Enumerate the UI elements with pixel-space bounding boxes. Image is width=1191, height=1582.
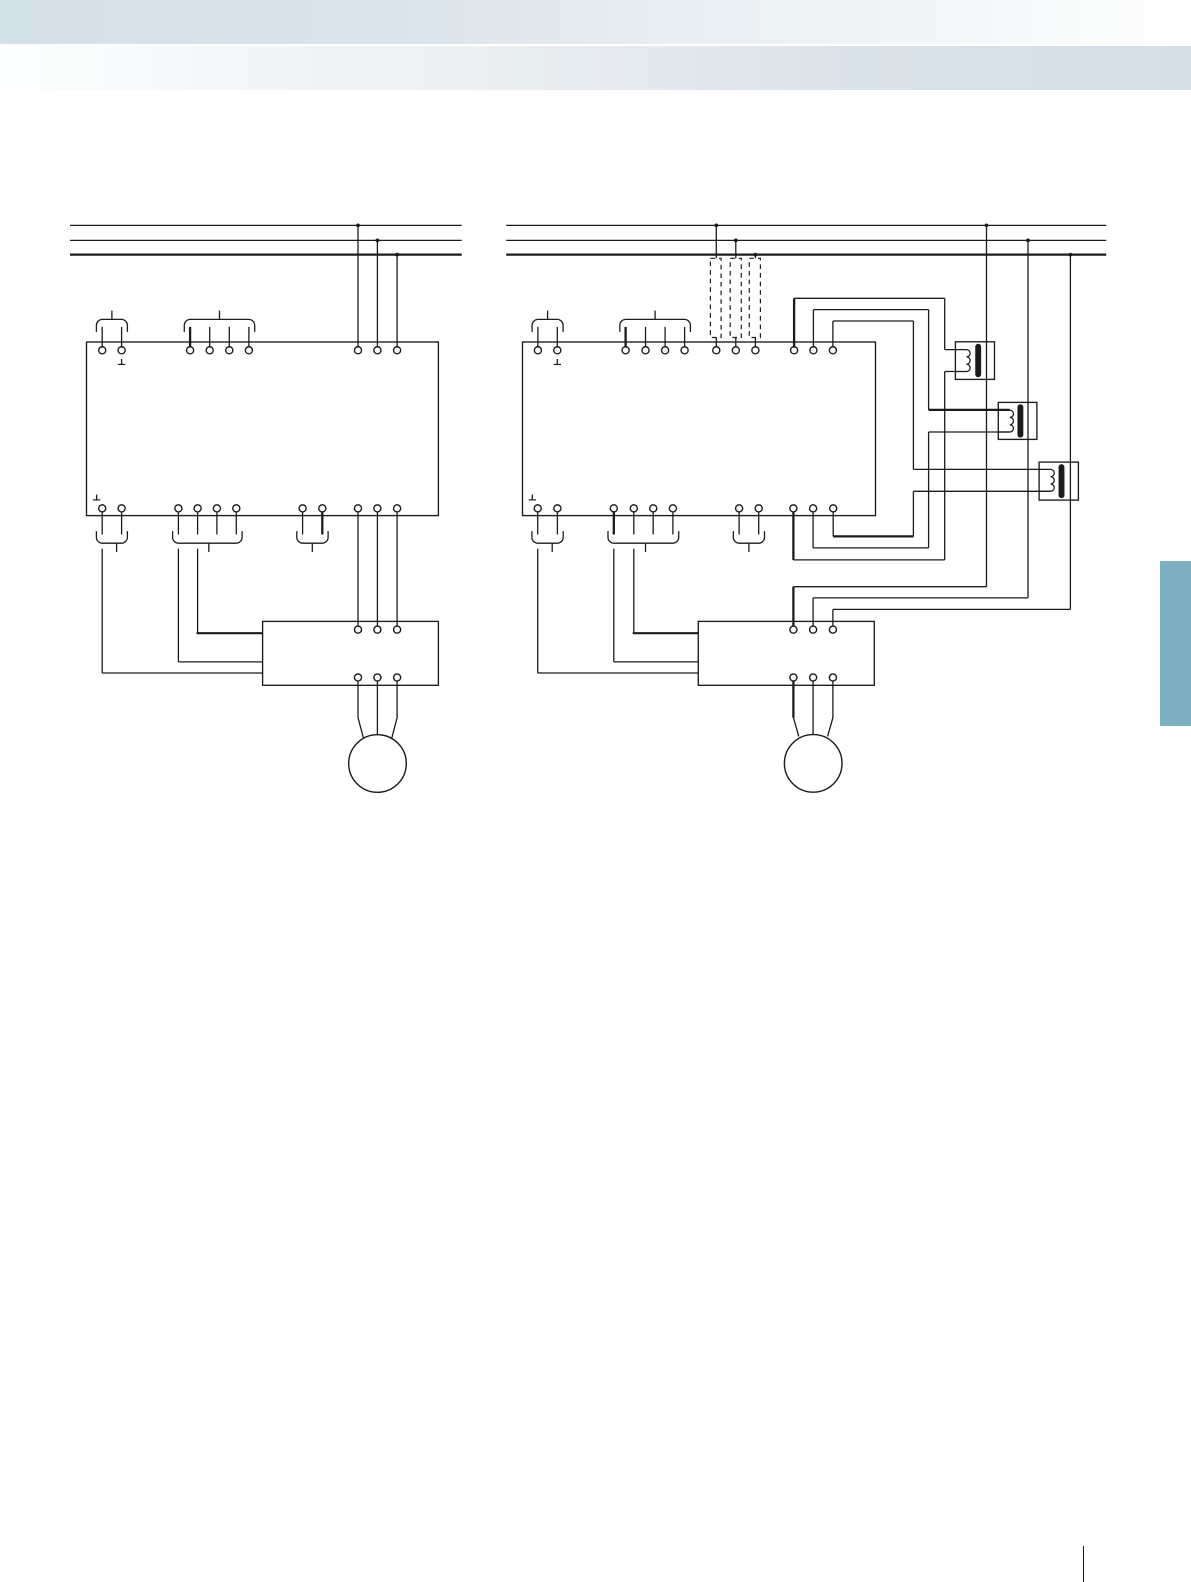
terminal circles X5 pair (right bottom) — [736, 505, 763, 512]
contactor K4 coil (right) — [1039, 469, 1054, 491]
terminal circles X3 pair (left bottom) — [99, 505, 126, 512]
connector X2 bracket with pins, pin1 bold (right, control group) — [620, 311, 691, 347]
three-phase supply line L3 (left diagram) — [70, 253, 462, 255]
wire bypass to motor phase U bold (right) — [793, 681, 798, 737]
wire L2 to fuse F2 (right) — [735, 240, 737, 258]
wire contactor K3 return to terminal 4T2 (right) — [813, 432, 1010, 548]
bypass K5 input terminal circles (right) — [790, 626, 837, 633]
wire supply L2 drop to bypass input (right) — [813, 239, 1030, 627]
wire bypass to motor phase W (left) — [392, 681, 397, 738]
contactor K3 coil (right) — [998, 410, 1013, 432]
wire 2T1 bold stub (right) — [792, 512, 794, 560]
wire tap2 riser to node (right) — [812, 310, 814, 347]
wire supply L1 drop to bypass input (right) — [793, 224, 988, 627]
contactor K2 enclosure (right) — [955, 342, 994, 380]
wire L3 drop to softstarter terminal 5L3 (left) — [396, 255, 398, 347]
terminal circles T1 T2 T3 delta taps (right top) — [791, 347, 837, 354]
wire fuse F1 to terminal 1L1 (right) — [715, 338, 717, 347]
connector X3 cup with pins (right bottom pair) — [532, 512, 563, 552]
softstarter U2 enclosure (right diagram) — [523, 342, 876, 516]
wire X3 pin1 to bypass contactor (left) — [102, 549, 262, 673]
wire 2T1 to bypass terminal (left) — [357, 512, 359, 626]
wire tap1 bold riser to node (right) — [793, 298, 795, 347]
optional fuse F3, dashed (right) — [749, 258, 760, 337]
wire tap3 riser to node (right) — [832, 321, 834, 347]
three-phase supply line L2 (right diagram) — [506, 239, 1106, 241]
ground mark at X1 (left) — [118, 359, 125, 364]
wire bypass to motor phase W (right) — [828, 681, 833, 737]
wire L3 to fuse F3 (right) — [754, 255, 756, 259]
three-phase supply line L3 (right diagram) — [506, 253, 1106, 255]
terminal circles X3 pair (right bottom) — [534, 505, 561, 512]
wire contactor K4 return to terminal 6T3, thick end (right) — [833, 491, 1050, 536]
wire 6T3 stub (right) — [832, 512, 834, 537]
wire supply L3 drop to bypass input (right) — [833, 253, 1072, 626]
junction node L1 (left) — [356, 224, 360, 228]
junction node L1 to fuse F1 (right) — [714, 224, 718, 228]
wire 4T2 stub (right) — [812, 512, 814, 548]
three-phase supply line L1 (left diagram) — [70, 224, 462, 226]
wire bypass to motor phase V (right) — [812, 681, 814, 735]
bypass contactor K5 enclosure (right diagram) — [698, 621, 874, 685]
wire contactor K2 return to terminal 2T1 (right) — [793, 372, 944, 560]
wire bypass to motor phase V (left) — [376, 681, 378, 735]
connector X2 bracket with pins, pin1 bold (left, control group) — [184, 311, 254, 347]
terminal circles 1L1 3L2 5L3 (right) — [713, 347, 759, 354]
softstarter U1 enclosure (left diagram) — [87, 342, 439, 516]
ground mark bottom-left (left) — [93, 495, 100, 500]
contactor K3 enclosure (right) — [998, 402, 1037, 439]
wire fuse F3 to terminal 5L3 (right) — [754, 338, 756, 347]
bypass K5 output terminal circles (right) — [790, 674, 837, 681]
connector X3 cup with pins (left bottom pair) — [96, 512, 127, 552]
terminal circles 2T1 4T2 6T3 (left bottom) — [354, 505, 400, 512]
wire 4T2 to bypass terminal (left) — [376, 512, 378, 626]
junction node L3 to fuse F3 (right) — [754, 253, 758, 257]
wire L1 to fuse F1 (right) — [715, 225, 717, 258]
ground mark at X1 (right) — [554, 359, 561, 364]
connector X4 cup with pins, pin1 bold (right bottom group of 4) — [608, 512, 679, 552]
wire L2 drop to softstarter terminal 3L2 (left) — [376, 240, 378, 347]
connector X1 bracket with pins (left, supply pair) — [96, 311, 127, 347]
wire L1 drop to softstarter terminal 1L1 (left) — [357, 225, 359, 347]
contactor K2 coil (right) — [945, 350, 970, 372]
wire tap2 across to contactor K3 coil, thick feed (right) — [813, 310, 1009, 410]
connector X4 cup with pins (left bottom group of 4) — [173, 512, 243, 552]
motor M2 (right diagram) — [784, 735, 842, 793]
wire bypass to motor phase U (left) — [358, 681, 363, 738]
connector X5 cup with pins (right bottom pair) — [733, 512, 764, 552]
bypass K1 output terminal circles (left) — [354, 674, 400, 681]
wire tap1 across to contactor K2 coil (right) — [794, 298, 945, 349]
three-phase supply line L2 (left diagram) — [70, 239, 462, 241]
bypass contactor K1 enclosure (left diagram) — [263, 621, 439, 685]
terminal circles 1L1 3L2 5L3 (left) — [354, 347, 400, 354]
wire tap3 across to contactor K4 coil (right) — [833, 321, 1051, 469]
contactor K3 contact bar (right) — [1017, 407, 1023, 435]
connector X5 cup with pins, pin2 bold (left bottom pair) — [297, 512, 328, 552]
junction node L2 to fuse F2 (right) — [734, 239, 738, 243]
wire X4 pin2 to bypass contactor, thick (left) — [197, 549, 263, 634]
terminal circles X4 group (left bottom) — [175, 505, 240, 512]
terminal circles X4 group (right bottom) — [610, 505, 676, 512]
junction node L3 (left) — [395, 253, 399, 257]
bypass K1 input terminal circles (left) — [354, 626, 400, 633]
wire fuse F2 to terminal 3L2 (right) — [735, 338, 737, 347]
wire X4 pin1 to bypass contactor (left) — [178, 549, 262, 662]
ground mark bottom-left (right) — [529, 495, 536, 500]
optional fuse F1, dashed (right) — [710, 258, 721, 337]
contactor K4 contact bar (right) — [1059, 467, 1065, 495]
wire X3 pin1 to bypass contactor (right) — [538, 549, 699, 673]
terminal circles 2T1 4T2 6T3 (right bottom) — [790, 505, 837, 512]
contactor K4 enclosure (right) — [1039, 462, 1078, 500]
terminal circles X2 (left) — [187, 347, 253, 354]
terminal circles X1 (right) — [534, 347, 560, 354]
junction node L2 (left) — [376, 239, 380, 243]
three-phase supply line L1 (right diagram) — [506, 224, 1106, 226]
wire X4 pin1 to bypass contactor (right) — [614, 549, 699, 662]
connector X1 bracket with pins (right, supply pair) — [532, 311, 563, 347]
motor M1 (left diagram) — [349, 735, 407, 793]
terminal circles X2 (right) — [622, 347, 688, 354]
terminal circles X1 (left) — [99, 347, 126, 354]
optional fuse F2, dashed (right) — [730, 258, 741, 337]
contactor K2 contact bar (right) — [975, 347, 981, 375]
terminal circles X5 pair (left bottom), pin2 bold — [299, 505, 326, 512]
wire 6T3 to bypass terminal (left) — [396, 512, 398, 626]
wire X4 pin2 to bypass contactor, thick (right) — [633, 549, 699, 634]
